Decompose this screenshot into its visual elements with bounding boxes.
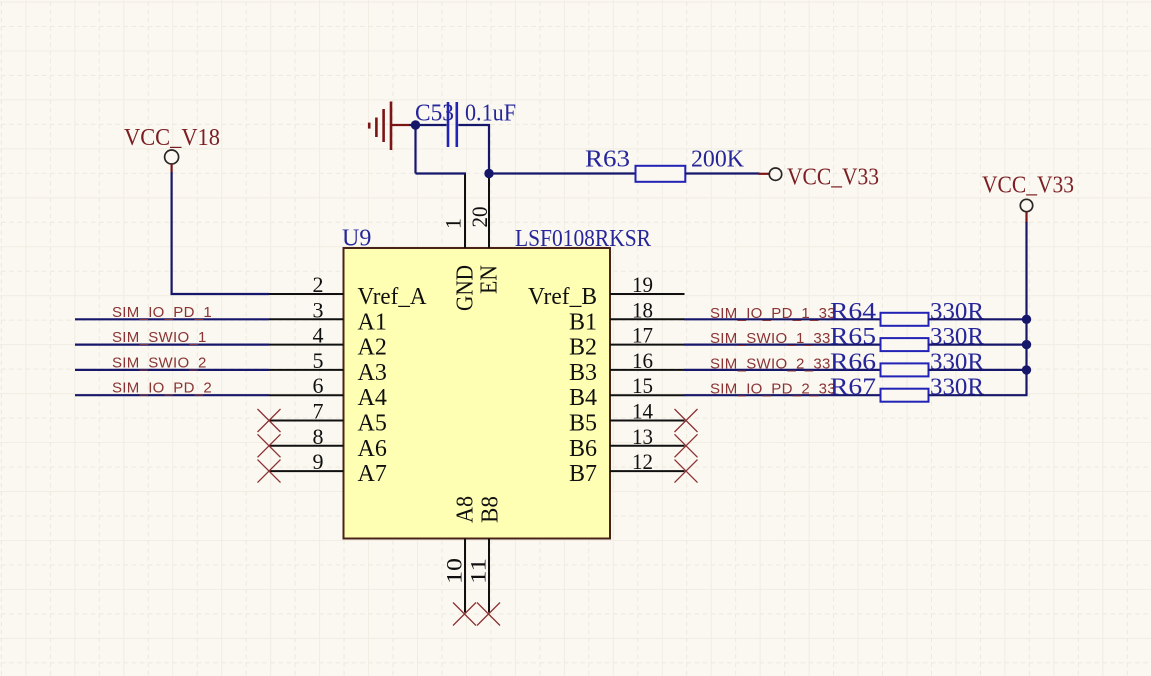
svg-text:6: 6	[313, 373, 324, 398]
svg-text:9: 9	[313, 449, 324, 474]
svg-text:A5: A5	[358, 411, 387, 437]
junction VCC_V33 bus / R65	[1022, 340, 1031, 349]
pin 12 (B7) wire	[610, 470, 685, 472]
pin 13 (B6) wire	[610, 445, 685, 447]
svg-text:1: 1	[441, 218, 466, 229]
svg-text:14: 14	[632, 399, 653, 424]
svg-text:20: 20	[467, 207, 492, 228]
pin 8 (A6) wire	[269, 445, 344, 447]
wire junction down (GND branch)	[414, 124, 416, 174]
wire net SIM_IO_PD_2_33	[684, 394, 881, 396]
no-connect X pin 12	[675, 460, 698, 483]
svg-text:A2: A2	[358, 335, 387, 361]
svg-text:GND: GND	[453, 265, 479, 311]
pin 14 (B5) wire	[610, 420, 685, 422]
wire R63 to VCC_V33 port	[685, 172, 759, 174]
no-connect X pin 10	[453, 603, 476, 626]
svg-text:2: 2	[313, 272, 324, 297]
svg-text:16: 16	[632, 348, 653, 373]
svg-text:15: 15	[632, 373, 653, 398]
power port VCC_V18 circle	[165, 150, 179, 164]
svg-text:A3: A3	[358, 360, 387, 386]
svg-text:7: 7	[313, 399, 324, 424]
svg-text:A4: A4	[358, 385, 387, 411]
svg-text:SIM_SWIO_1: SIM_SWIO_1	[112, 329, 207, 346]
svg-text:A8: A8	[453, 496, 479, 523]
svg-text:SIM_SWIO_1_33: SIM_SWIO_1_33	[710, 330, 831, 347]
svg-text:SIM_IO_PD_1: SIM_IO_PD_1	[112, 304, 212, 321]
svg-text:A6: A6	[358, 436, 387, 462]
pin 4 (A2) wire	[269, 344, 344, 346]
pin 19 (Vref_B) wire	[610, 293, 685, 295]
pin 7 (A5) wire	[269, 420, 344, 422]
resistor R63 body	[636, 166, 686, 182]
svg-text:B2: B2	[569, 335, 597, 361]
wire across to pin 1	[416, 172, 467, 174]
svg-text:LSF0108RKSR: LSF0108RKSR	[515, 226, 651, 252]
svg-text:U9: U9	[342, 226, 371, 252]
wire net SIM_IO_PD_1_33	[684, 318, 881, 320]
wire VCC_V33 bus vertical	[1025, 222, 1027, 395]
junction VCC_V33 bus / R64	[1022, 315, 1031, 324]
power port VCC_V33 (at R63) circle	[769, 168, 781, 180]
no-connect X pin 14	[675, 409, 698, 432]
capacitor C53 plates	[448, 102, 457, 147]
svg-text:EN: EN	[477, 265, 503, 294]
no-connect X pin 11	[477, 603, 500, 626]
wire gnd-junction to C53 left plate	[409, 124, 447, 126]
svg-text:17: 17	[632, 323, 653, 348]
wire net SIM_SWIO_2 (left)	[75, 369, 269, 371]
wire net SIM_IO_PD_2 (left)	[75, 394, 269, 396]
svg-text:Vref_A: Vref_A	[358, 284, 428, 310]
svg-text:B7: B7	[569, 461, 597, 487]
wire net SIM_SWIO_1 (left)	[75, 344, 269, 346]
IC U9 LSF0108RKSR body	[344, 248, 611, 539]
svg-text:B5: B5	[569, 411, 597, 437]
svg-text:330R: 330R	[930, 324, 984, 350]
svg-text:SIM_IO_PD_1_33: SIM_IO_PD_1_33	[710, 305, 836, 322]
pin 9 (A7) wire	[269, 470, 344, 472]
pin 11 (B8) wire	[488, 539, 490, 613]
wire R67 to VCC_V33 bus	[929, 394, 1028, 396]
pin 18 (B1) wire	[610, 318, 685, 320]
svg-text:11: 11	[466, 558, 491, 584]
svg-text:10: 10	[442, 558, 467, 584]
svg-text:VCC_V33: VCC_V33	[787, 165, 879, 191]
svg-text:A7: A7	[358, 461, 387, 487]
svg-text:VCC_V18: VCC_V18	[124, 125, 220, 151]
wire net SIM_SWIO_2_33	[684, 369, 881, 371]
svg-text:12: 12	[632, 449, 653, 474]
svg-text:19: 19	[632, 272, 653, 297]
wire C53 right plate to EN branch	[458, 124, 490, 126]
svg-text:B6: B6	[569, 436, 597, 462]
svg-text:R64: R64	[830, 299, 876, 325]
no-connect X pin 9	[258, 460, 281, 483]
wire net SIM_IO_PD_1 (left)	[75, 318, 269, 320]
no-connect X pin 8	[258, 434, 281, 457]
junction at C53/GND node	[411, 120, 420, 129]
no-connect X pin 13	[675, 434, 698, 457]
junction at EN node	[484, 169, 493, 178]
pin 20 (EN) wire	[488, 173, 490, 249]
svg-text:330R: 330R	[930, 299, 984, 325]
svg-text:8: 8	[313, 424, 324, 449]
power port VCC_V33 (right) stub	[1025, 212, 1027, 223]
svg-text:R63: R63	[585, 147, 630, 173]
wire R64 to VCC_V33 bus	[929, 318, 1028, 320]
resistor R65 body	[881, 338, 929, 351]
wire net SIM_SWIO_1_33	[684, 344, 881, 346]
junction VCC_V33 bus / R66	[1022, 365, 1031, 374]
svg-text:200K: 200K	[691, 147, 745, 173]
pin 15 (B4) wire	[610, 394, 685, 396]
power port VCC_V33 (right) circle	[1020, 199, 1032, 211]
no-connect X pin 7	[258, 409, 281, 432]
pin 6 (A4) wire	[269, 394, 344, 396]
svg-text:0.1uF: 0.1uF	[465, 101, 516, 127]
svg-text:A1: A1	[358, 309, 387, 335]
pin 1 (GND) wire	[464, 173, 466, 249]
svg-text:B4: B4	[569, 385, 597, 411]
pin 3 (A1) wire	[269, 318, 344, 320]
svg-text:3: 3	[313, 297, 324, 322]
svg-text:18: 18	[632, 297, 653, 322]
resistor R66 body	[881, 363, 929, 376]
wire down to EN junction	[488, 124, 490, 175]
svg-text:SIM_IO_PD_2_33: SIM_IO_PD_2_33	[710, 381, 836, 398]
ground symbol	[369, 102, 409, 151]
svg-text:Vref_B: Vref_B	[528, 284, 597, 310]
svg-text:13: 13	[632, 424, 653, 449]
svg-text:SIM_SWIO_2: SIM_SWIO_2	[112, 354, 207, 371]
resistor R67 body	[881, 389, 929, 402]
svg-text:330R: 330R	[930, 375, 984, 401]
wire R65 to VCC_V33 bus	[929, 344, 1028, 346]
svg-text:SIM_SWIO_2_33: SIM_SWIO_2_33	[710, 355, 831, 372]
pin 16 (B3) wire	[610, 369, 685, 371]
svg-text:B8: B8	[478, 496, 504, 523]
svg-text:SIM_IO_PD_2: SIM_IO_PD_2	[112, 380, 212, 397]
wire EN junction to R63	[489, 172, 636, 174]
power port VCC_V18 stub	[171, 164, 173, 173]
wire R66 to VCC_V33 bus	[929, 369, 1028, 371]
svg-text:4: 4	[313, 323, 324, 348]
pin 17 (B2) wire	[610, 344, 685, 346]
wire VCC_V18 to pin 2	[172, 172, 269, 294]
pin 10 (A8) wire	[464, 539, 466, 613]
svg-text:B1: B1	[569, 309, 597, 335]
svg-text:VCC_V33: VCC_V33	[982, 173, 1074, 199]
power port VCC_V33 (at R63) stub	[759, 173, 770, 175]
svg-text:B3: B3	[569, 360, 597, 386]
svg-text:R67: R67	[830, 375, 876, 401]
svg-text:C53: C53	[415, 101, 454, 127]
svg-text:R65: R65	[830, 324, 876, 350]
svg-text:R66: R66	[830, 349, 876, 375]
svg-text:5: 5	[313, 348, 324, 373]
pin 5 (A3) wire	[269, 369, 344, 371]
pin 2 (Vref_A) wire	[269, 293, 344, 295]
svg-text:330R: 330R	[930, 349, 984, 375]
resistor R64 body	[881, 313, 929, 326]
